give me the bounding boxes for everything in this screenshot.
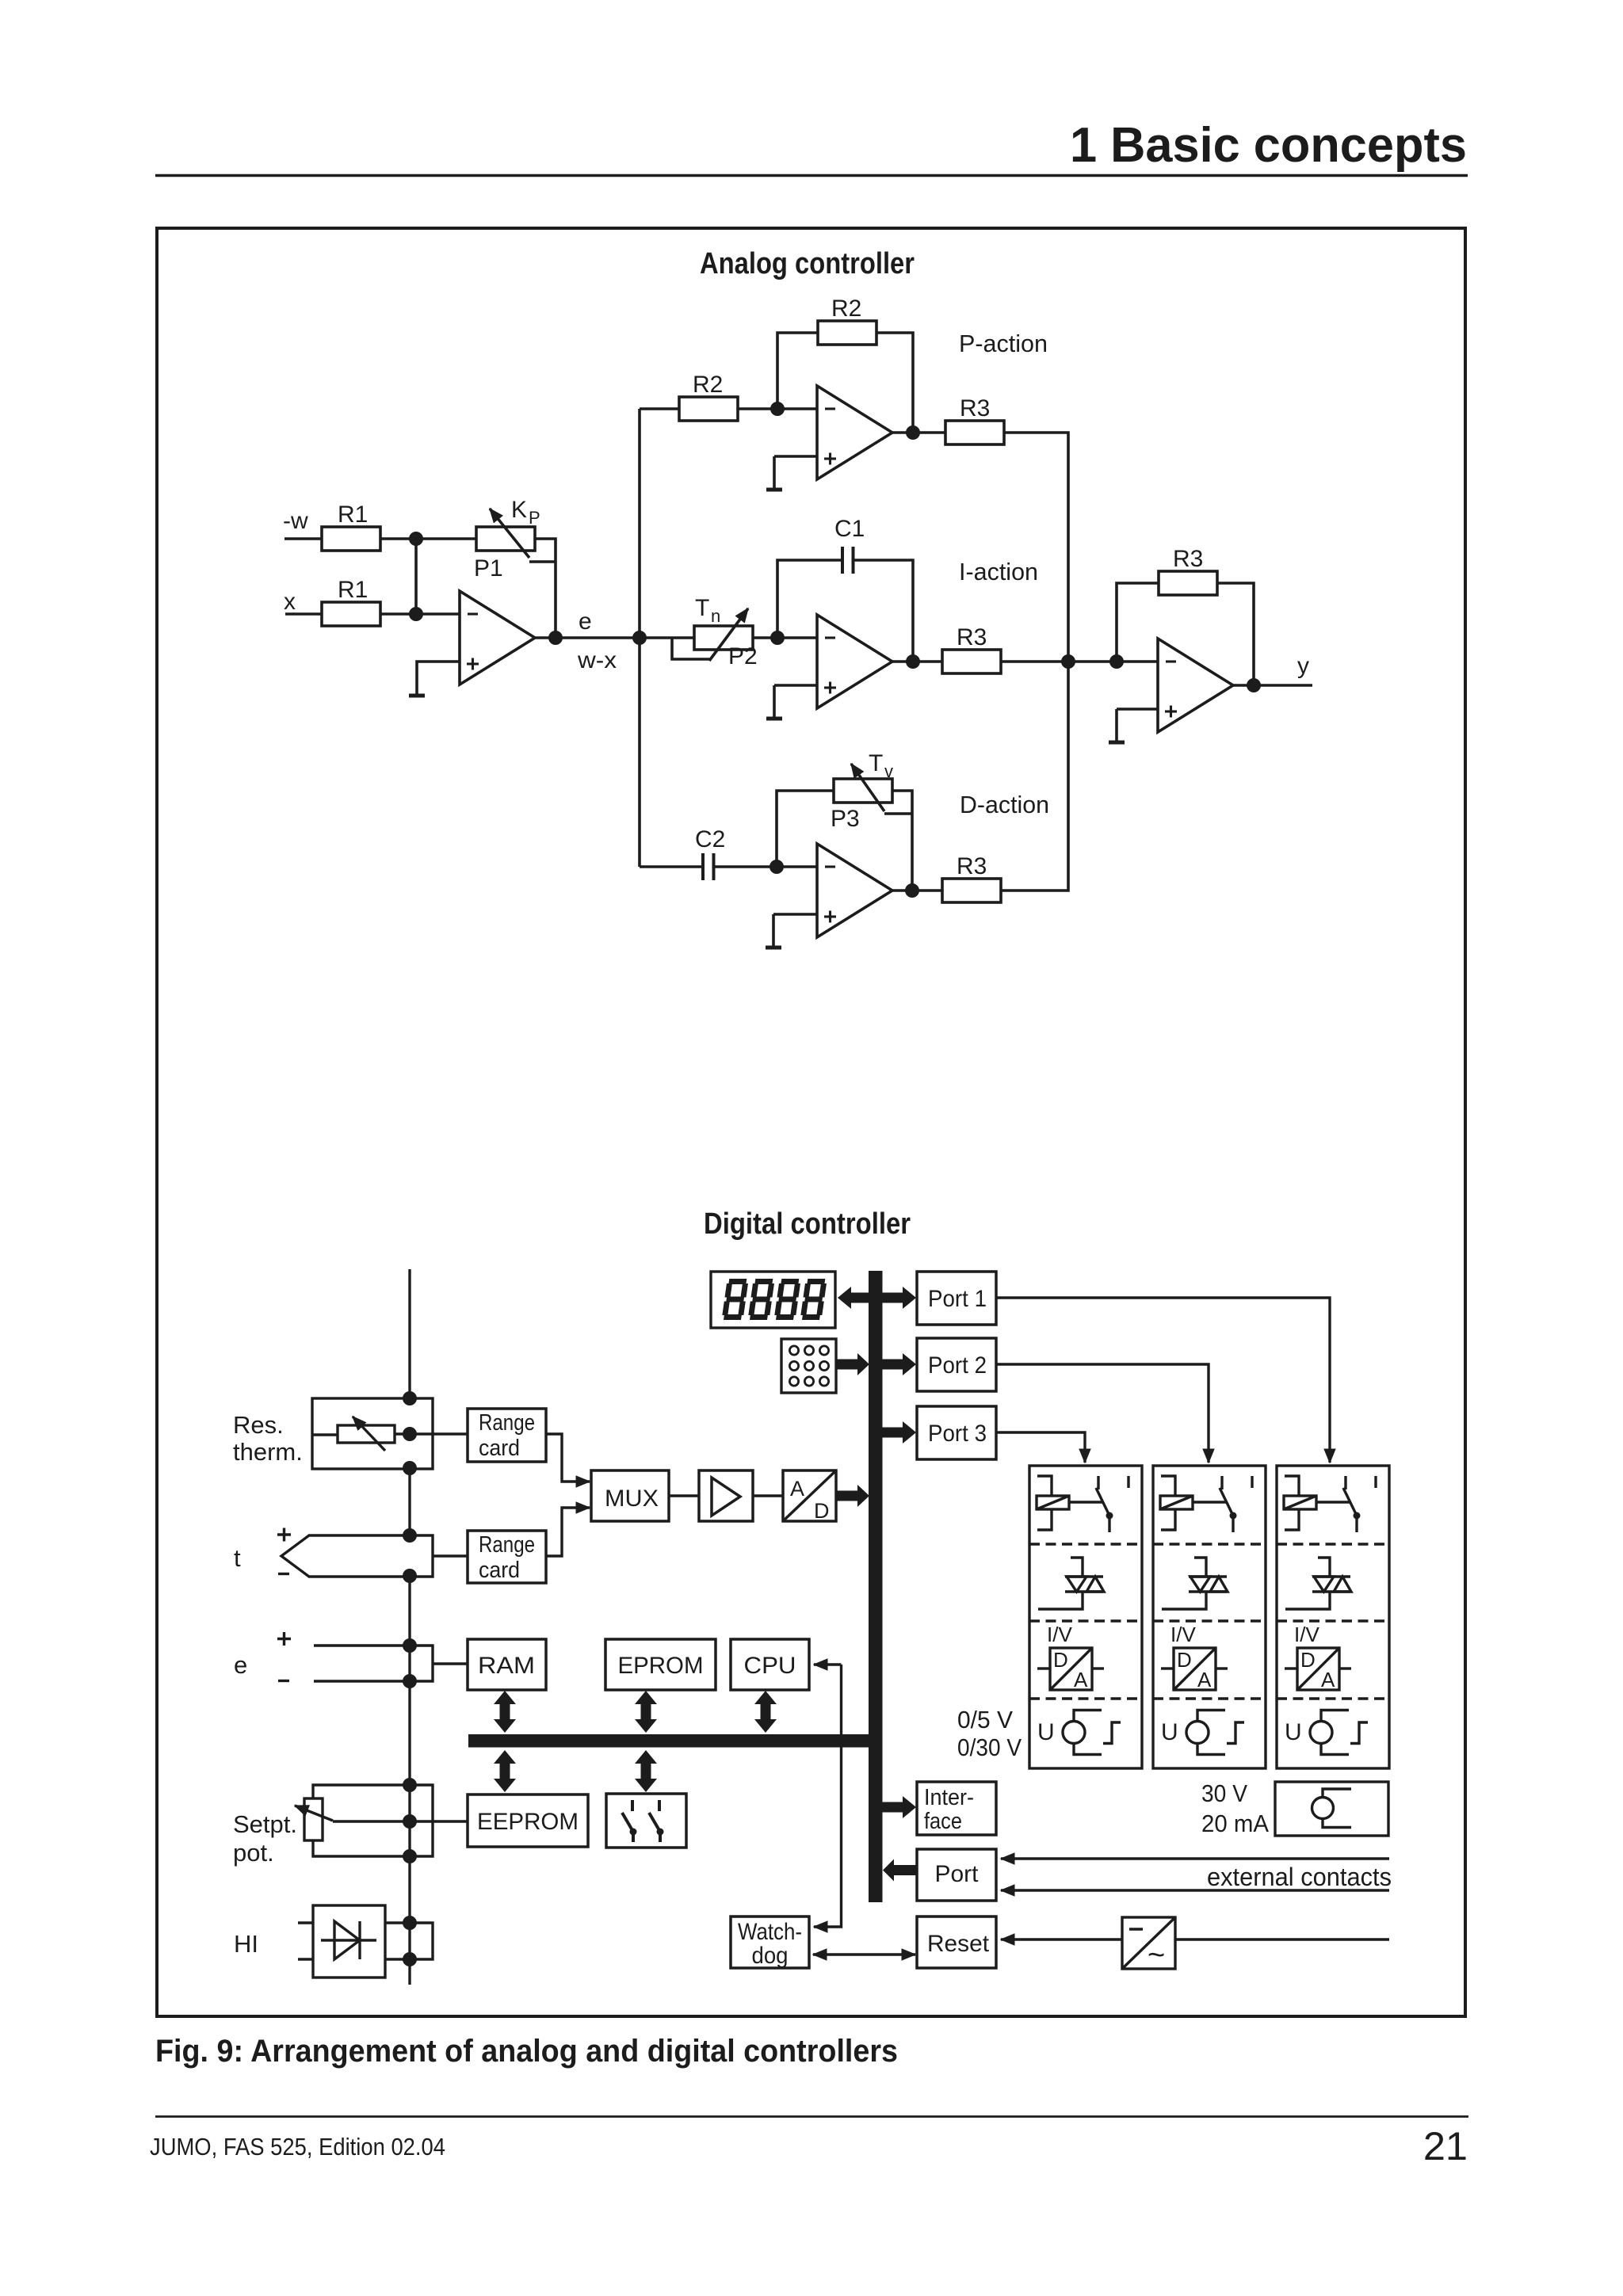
wire R3 to summing node bbox=[1001, 660, 1158, 663]
junction summing line bbox=[1061, 654, 1075, 669]
svg-text:R1: R1 bbox=[338, 502, 368, 528]
svg-text:30 V: 30 V bbox=[1201, 1779, 1247, 1807]
wire x lead bbox=[285, 612, 322, 616]
svg-text:20 mA: 20 mA bbox=[1201, 1810, 1269, 1837]
svg-text:R3: R3 bbox=[957, 853, 987, 879]
svg-text:T: T bbox=[695, 595, 709, 621]
svg-text:Setpt.: Setpt. bbox=[233, 1810, 297, 1838]
junction rail/e- bbox=[403, 1674, 417, 1688]
potentiometer P3 (rate time Tv) bbox=[834, 764, 912, 814]
resistor R3 (P out) bbox=[945, 421, 1004, 444]
junction D feedback bbox=[769, 860, 784, 874]
svg-text:R2: R2 bbox=[831, 296, 861, 322]
Port 2 wire to output channel 2 bbox=[996, 1364, 1209, 1463]
ground (U1 +) bbox=[409, 662, 425, 696]
junction I feedback bbox=[770, 631, 785, 645]
wire P2 to U3 inverting input bbox=[753, 636, 817, 639]
svg-text:Port 2: Port 2 bbox=[928, 1352, 987, 1379]
junction rail/thermocouple bottom bbox=[403, 1569, 417, 1583]
wire R3 to summing line bbox=[1004, 433, 1068, 662]
svg-text:card: card bbox=[479, 1558, 520, 1583]
wire U5 output y bbox=[1233, 684, 1312, 687]
svg-text:P1: P1 bbox=[474, 555, 503, 582]
svg-text:CPU: CPU bbox=[744, 1653, 796, 1679]
svg-text:A: A bbox=[790, 1477, 804, 1501]
wire error bus vertical bbox=[638, 409, 641, 867]
junction rail/res-therm top bbox=[403, 1391, 417, 1405]
wire thermocouple to Range card 2 bbox=[433, 1554, 468, 1557]
CPU box bbox=[731, 1639, 809, 1690]
wire R3 up to summing node bbox=[1001, 662, 1068, 891]
ground (U4 +) bbox=[766, 914, 781, 948]
wire Range card 2 to MUX bbox=[546, 1508, 590, 1556]
junction P1/output bbox=[548, 631, 563, 645]
wire R1 to node bbox=[380, 537, 476, 540]
wire U2 non-inverting input bbox=[774, 455, 817, 458]
bus arrow display/Port 1 (double headed) bbox=[838, 1287, 916, 1309]
svg-text:HI: HI bbox=[234, 1930, 258, 1958]
label + (thermocouple) bbox=[277, 1528, 291, 1542]
svg-text:P-action: P-action bbox=[959, 330, 1048, 357]
svg-text:JUMO, FAS 525, Edition 02.04: JUMO, FAS 525, Edition 02.04 bbox=[150, 2134, 445, 2161]
bus arrow RAM/data bus bbox=[494, 1691, 516, 1733]
wire wiper jog bbox=[672, 638, 711, 659]
svg-text:C2: C2 bbox=[695, 826, 725, 852]
resistance thermometer block bbox=[312, 1398, 468, 1469]
bus arrow bus to interface bbox=[882, 1796, 916, 1818]
svg-text:Fig. 9: Arrangement of analog: Fig. 9: Arrangement of analog and digita… bbox=[155, 2034, 898, 2069]
wire Tv feedback left leg bbox=[777, 791, 834, 867]
bus arrow bus to Port 3 bbox=[882, 1421, 916, 1444]
Range card 2 box bbox=[468, 1531, 546, 1583]
svg-text:Port: Port bbox=[935, 1861, 980, 1887]
svg-text:R3: R3 bbox=[960, 395, 990, 421]
wire e node to P2 (with wiper jog) bbox=[640, 636, 694, 639]
wire -w lead bbox=[285, 537, 322, 540]
svg-text:Analog controller: Analog controller bbox=[700, 247, 915, 280]
wire MUX to amplifier bbox=[669, 1494, 699, 1497]
junction rail/HI bottom bbox=[403, 1952, 417, 1966]
junction rail/thermocouple top bbox=[403, 1528, 417, 1543]
bus arrow data bus/EEPROM bbox=[494, 1750, 516, 1792]
svg-text:t: t bbox=[234, 1544, 241, 1572]
svg-text:P3: P3 bbox=[831, 806, 860, 832]
svg-text:y: y bbox=[1297, 653, 1309, 679]
keypad bbox=[781, 1339, 836, 1393]
svg-text:external contacts: external contacts bbox=[1207, 1863, 1392, 1891]
wire e+ bbox=[314, 1644, 410, 1646]
resistor R2 (P feedback) bbox=[818, 321, 876, 345]
junction summing feedback bbox=[1109, 654, 1124, 669]
svg-text:pot.: pot. bbox=[233, 1839, 274, 1867]
Port 1 box bbox=[917, 1272, 996, 1325]
op-amp U1 (error amplifier) bbox=[460, 591, 535, 685]
switches box bbox=[606, 1794, 686, 1848]
junction rail/e+ bbox=[403, 1638, 417, 1653]
op-amp U2 (P-action) bbox=[817, 386, 892, 479]
svg-text:Range: Range bbox=[479, 1532, 535, 1558]
resistor R3 (summing feedback) bbox=[1159, 571, 1217, 595]
RAM box bbox=[468, 1639, 546, 1690]
wire U4 non-inverting input bbox=[773, 913, 817, 916]
wire CPU/watchdog feedback bbox=[814, 1663, 842, 1665]
wire external contact 2 bbox=[1001, 1889, 1389, 1891]
svg-text:P2: P2 bbox=[728, 643, 758, 669]
wire watchdog/reset (double arrow) bbox=[813, 1953, 915, 1955]
Port 1 wire to output channel 3 bbox=[996, 1298, 1330, 1463]
setpoint potentiometer block bbox=[295, 1785, 468, 1856]
svg-text:0/30 V: 0/30 V bbox=[957, 1733, 1022, 1761]
svg-text:R3: R3 bbox=[1173, 546, 1203, 572]
Range card 1 box bbox=[468, 1409, 546, 1462]
wire P1 right terminal down to summing node bbox=[535, 539, 556, 638]
ground (U2 +) bbox=[766, 456, 782, 490]
junction rail/setpt bottom bbox=[403, 1849, 417, 1863]
svg-text:Digital controller: Digital controller bbox=[704, 1207, 911, 1241]
Port 2 box bbox=[917, 1338, 996, 1391]
wire U1 output to main node e bbox=[533, 636, 640, 639]
wire U3 non-inverting input bbox=[774, 684, 817, 687]
wire U2 output to R3 bbox=[892, 431, 945, 434]
wire P3 right terminal to output bbox=[892, 791, 912, 891]
junction rail/HI top bbox=[403, 1916, 417, 1930]
junction x/R1 bbox=[409, 607, 423, 621]
junction U4 output bbox=[905, 883, 919, 898]
resistor R3 (I out) bbox=[942, 650, 1001, 673]
wire P feedback right leg bbox=[876, 333, 913, 433]
svg-text:P: P bbox=[529, 508, 540, 528]
junction -w/R1 bbox=[409, 532, 423, 546]
wire feedback right leg bbox=[1217, 583, 1254, 685]
wire U4 output to R3 bbox=[892, 889, 942, 892]
resistor R1 (actual value input) bbox=[322, 602, 380, 626]
svg-text:D-action: D-action bbox=[960, 791, 1049, 818]
bus arrow Port to bus bbox=[883, 1859, 917, 1882]
label - (e) bbox=[278, 1680, 289, 1682]
A/D converter box bbox=[783, 1470, 836, 1521]
bus (vertical system bus) bbox=[869, 1271, 883, 1902]
svg-text:Watch-: Watch- bbox=[738, 1919, 802, 1945]
junction U5 output bbox=[1247, 678, 1261, 692]
svg-text:EEPROM: EEPROM bbox=[477, 1809, 579, 1835]
junction rail/setpt wiper bbox=[403, 1814, 417, 1829]
ground (U5 +) bbox=[1109, 709, 1125, 742]
svg-text:Port 1: Port 1 bbox=[928, 1286, 987, 1312]
resistor R1 (setpoint input) bbox=[322, 527, 380, 551]
wire Range card 1 to MUX bbox=[546, 1434, 590, 1482]
wire amplifier to A/D bbox=[753, 1494, 783, 1497]
svg-text:dog: dog bbox=[752, 1943, 789, 1969]
footer rule bbox=[155, 2115, 1468, 2118]
label + (e) bbox=[277, 1632, 291, 1646]
ground (U3 +) bbox=[766, 685, 782, 719]
resistor R3 (D out) bbox=[942, 879, 1001, 902]
resistor R2 (P input) bbox=[679, 397, 738, 421]
wire branch to R2 bbox=[640, 407, 679, 410]
wire e- bbox=[314, 1680, 410, 1682]
svg-text:w-x: w-x bbox=[577, 647, 617, 673]
op-amp U4 (D-action) bbox=[817, 844, 892, 937]
Watchdog box bbox=[731, 1917, 809, 1968]
svg-text:T: T bbox=[869, 750, 883, 776]
svg-text:R2: R2 bbox=[693, 372, 723, 398]
svg-text:Res.: Res. bbox=[233, 1411, 284, 1439]
svg-text:21: 21 bbox=[1423, 2123, 1468, 2168]
Port 3 box bbox=[917, 1406, 996, 1459]
heading rule bbox=[155, 174, 1468, 177]
wire R1 to op-amp U1 inverting input bbox=[380, 612, 460, 616]
svg-text:MUX: MUX bbox=[605, 1486, 659, 1512]
amplifier box bbox=[699, 1470, 753, 1521]
svg-text:Reset: Reset bbox=[927, 1931, 990, 1957]
svg-text:D: D bbox=[814, 1499, 830, 1523]
svg-text:Range: Range bbox=[479, 1410, 535, 1436]
svg-text:e: e bbox=[234, 1651, 247, 1679]
output channel 2 bbox=[1153, 1466, 1266, 1768]
junction rail/res-therm mid bbox=[403, 1427, 417, 1441]
svg-text:I-action: I-action bbox=[959, 558, 1038, 585]
svg-text:-w: -w bbox=[283, 508, 308, 534]
bus arrow A/D to bus bbox=[836, 1485, 869, 1507]
output channel 1 (relay/triac/DA/U) bbox=[1029, 1466, 1142, 1768]
svg-text:0/5 V: 0/5 V bbox=[957, 1706, 1013, 1733]
svg-text:n: n bbox=[711, 606, 720, 626]
bus arrow CPU/data bus bbox=[754, 1691, 777, 1733]
svg-text:~: ~ bbox=[1148, 1939, 1165, 1972]
bus arrow data bus/switches bbox=[635, 1750, 657, 1792]
svg-text:card: card bbox=[479, 1436, 520, 1461]
thermocouple t bbox=[281, 1535, 433, 1577]
Interface box bbox=[917, 1782, 996, 1835]
bus arrow bus to Port 2 bbox=[882, 1353, 916, 1375]
svg-text:face: face bbox=[924, 1809, 962, 1834]
potentiometer P2 (reset time Tn) bbox=[694, 608, 753, 661]
op-amp U3 (I-action) bbox=[817, 615, 892, 708]
wire joining both input nodes bbox=[414, 539, 418, 614]
svg-text:R3: R3 bbox=[957, 624, 987, 650]
svg-text:EPROM: EPROM bbox=[618, 1653, 704, 1679]
MUX box bbox=[591, 1470, 669, 1521]
EPROM box bbox=[605, 1639, 716, 1690]
power supply unit bbox=[1122, 1917, 1175, 1969]
wire input rail (left vertical) bbox=[408, 1269, 411, 1985]
capacitor C2 bbox=[703, 853, 714, 880]
node e / w-x bbox=[632, 631, 647, 645]
label - (thermocouple) bbox=[278, 1573, 289, 1575]
Port 3 wire to output channel 1 bbox=[996, 1432, 1085, 1463]
svg-text:x: x bbox=[284, 589, 296, 615]
Port box bbox=[917, 1849, 996, 1901]
potentiometer P1 (gain K_P) bbox=[476, 509, 556, 562]
junction rail/res-therm bottom bbox=[403, 1461, 417, 1475]
binary output 30V/20mA box bbox=[1275, 1782, 1388, 1836]
wire external contact 1 bbox=[1001, 1857, 1389, 1859]
output channel 3 bbox=[1277, 1466, 1389, 1768]
bus arrow EPROM/data bus bbox=[635, 1691, 657, 1733]
svg-text:R1: R1 bbox=[338, 577, 368, 603]
wire C1 feedback left leg bbox=[777, 560, 841, 638]
wire P feedback left leg bbox=[777, 333, 818, 409]
wire U3 output to R3 bbox=[892, 660, 942, 663]
wire U1 non-inverting input bbox=[417, 662, 460, 662]
wire power supply to reset bbox=[1001, 1938, 1122, 1940]
wire U5 non-inverting input bbox=[1117, 707, 1158, 711]
bus arrow keypad to bus bbox=[836, 1353, 869, 1375]
svg-text:e: e bbox=[579, 608, 592, 635]
wire R2 to U2 inverting input bbox=[738, 407, 817, 410]
svg-text:C1: C1 bbox=[834, 516, 865, 542]
junction U2 output bbox=[906, 425, 920, 440]
HI binary input block bbox=[298, 1905, 433, 1978]
svg-text:Inter-: Inter- bbox=[924, 1785, 974, 1810]
svg-text:Port 3: Port 3 bbox=[928, 1421, 987, 1447]
capacitor C1 bbox=[842, 547, 854, 574]
wire e bracket to RAM bbox=[410, 1646, 468, 1681]
svg-text:therm.: therm. bbox=[233, 1438, 303, 1466]
Reset box bbox=[917, 1917, 996, 1968]
wire power supply mains lead bbox=[1175, 1938, 1389, 1940]
7-segment display bbox=[711, 1272, 835, 1328]
wire feedback left leg bbox=[1117, 583, 1159, 662]
junction U3 output bbox=[906, 654, 920, 669]
data bus (horizontal) bbox=[468, 1734, 869, 1748]
junction P feedback bbox=[770, 402, 785, 416]
wire C1 feedback right leg bbox=[854, 560, 914, 662]
wire bus to C2 bbox=[640, 865, 701, 868]
svg-text:v: v bbox=[884, 761, 893, 781]
figure border frame bbox=[157, 228, 1465, 2016]
junction rail/setpt top bbox=[403, 1778, 417, 1792]
EEPROM box bbox=[468, 1794, 588, 1847]
svg-text:1 Basic concepts: 1 Basic concepts bbox=[1070, 118, 1467, 173]
svg-text:RAM: RAM bbox=[478, 1653, 535, 1679]
wire C2 to U4 inverting input bbox=[714, 865, 818, 868]
op-amp U5 (summing/output) bbox=[1158, 639, 1233, 732]
svg-text:K: K bbox=[511, 497, 527, 523]
